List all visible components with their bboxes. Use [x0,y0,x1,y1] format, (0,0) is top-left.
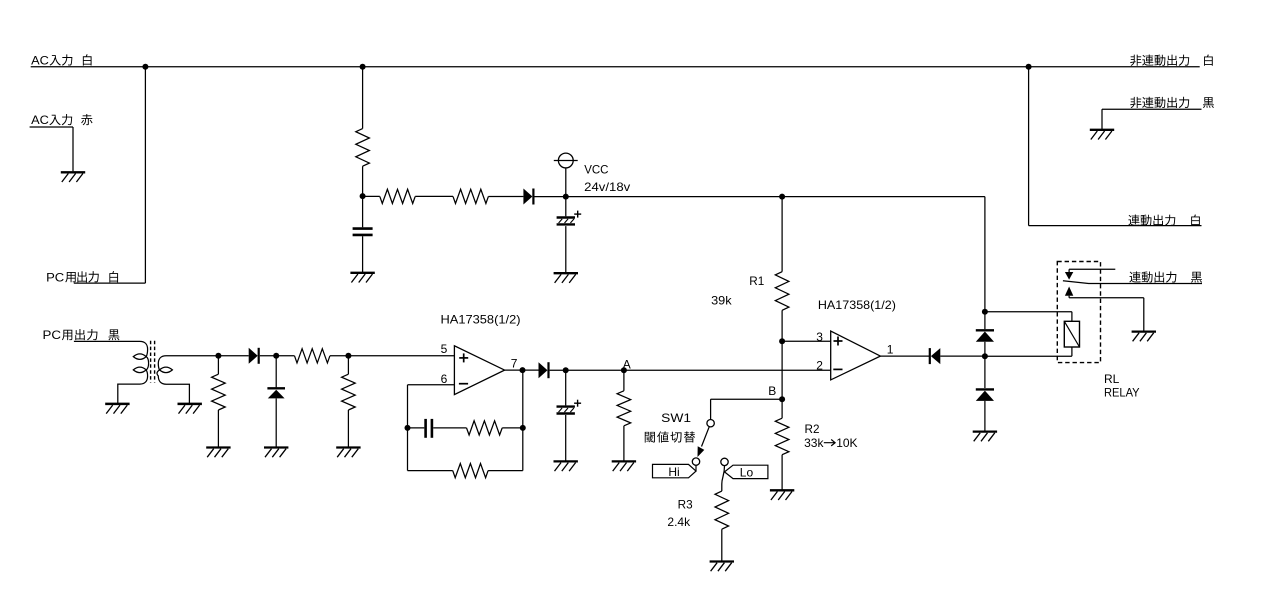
label 33k to 10K [804,436,857,450]
svg-text:24v/18v: 24v/18v [584,180,630,194]
wire feedback right vertical [522,370,524,471]
node junction top rail x362 [360,64,366,70]
node junction pin3 tap [779,338,785,344]
switch SW1 pivot [707,420,714,427]
resistor R1 [775,197,789,400]
svg-text:R1: R1 [749,274,764,288]
ground under C2 [554,273,578,283]
svg-text:B: B [768,384,776,398]
relay contact common blade [1063,281,1202,284]
relay coil RL [1064,321,1079,347]
resistor load secondary [212,356,226,447]
node junction zener [273,353,279,359]
svg-text:39k: 39k [711,293,733,307]
label linked output white [1128,215,1200,226]
ground T1 secondary [178,404,202,414]
resistor R3 [715,466,729,561]
ground AC-red [61,172,85,182]
svg-text:R3: R3 [678,497,693,511]
svg-text:RL: RL [1104,372,1120,386]
label 24v/18v [584,180,630,194]
svg-text:7: 7 [511,357,518,371]
wire linked white vertical [1029,67,1202,226]
resistor feedback upper [467,421,523,435]
resistor feedback lower [408,464,523,478]
svg-text:2.4k: 2.4k [667,515,691,529]
capacitor electrolytic C2 [557,197,582,273]
node junction R1 top [779,194,785,200]
diode zener ZD [267,356,285,447]
wire dropper to cap [362,166,364,227]
label HA17358(1/2) first [441,313,521,327]
node B [768,384,785,402]
label threshold switch [645,431,695,442]
wire AC-white top rail [31,66,1200,68]
flag Hi [653,464,697,479]
wire coil bottom return [985,347,1072,356]
capacitor feedback [408,419,467,438]
svg-text:RELAY: RELAY [1104,386,1140,400]
wire signal segment 1 [218,355,248,357]
pin 3 [816,330,823,344]
pin 1 [887,342,894,356]
node junction coil top [982,309,988,315]
svg-text:2: 2 [816,358,823,372]
ground under A resistor [612,461,636,471]
resistor divider shunt [342,356,356,447]
svg-text:10K: 10K [836,436,857,450]
label R2 [805,422,820,436]
wire coil top feed [985,312,1072,322]
label SW1 [661,411,691,425]
capacitor electrolytic C3 [557,370,582,461]
label R3 [678,497,693,511]
wire signal segment 2 [260,355,295,357]
op-amp U1A [454,346,504,395]
switch SW1 lever [698,427,710,457]
capacitor filter C [353,229,373,235]
label R1 [749,274,764,288]
ground non-linked black [1090,130,1114,140]
resistor series 2 [453,189,488,203]
svg-text:PC: PC [43,328,62,342]
resistor series 1 [380,189,415,203]
pin 7 [511,357,518,371]
node junction linked white [1026,64,1032,70]
node A [621,358,631,374]
wire signal segment 3 [330,355,455,357]
relay contact NO [1065,287,1144,332]
node junction C3 [563,367,569,373]
wire PC-white underline [74,282,146,284]
svg-text:AC: AC [31,113,49,127]
wire to node A [550,369,831,371]
label HA17358(1/2) second [818,298,896,312]
svg-text:33k: 33k [804,436,824,450]
node junction top-left [142,64,148,70]
wire feedback left vertical [407,385,409,471]
node junction divider [345,353,351,359]
transformer T1 secondary [157,356,218,404]
wire op1 inverting input [408,384,455,386]
pin 2 [816,358,823,372]
node junction A1 [215,353,221,359]
wire VCC row segment 4 [535,196,985,198]
svg-text:Lo: Lo [740,465,754,479]
diode output D4 reversed [930,348,985,364]
svg-text:AC: AC [31,54,49,68]
label non-linked output black [1130,97,1214,108]
relay box dashed [1057,262,1100,363]
ground relay NO [1132,332,1156,342]
ground T1 primary [105,404,129,414]
label AC input red [31,113,92,127]
resistor dropper vertical [356,129,370,167]
wire B to switch [711,399,783,419]
svg-text:HA17358(1/2): HA17358(1/2) [441,313,521,327]
svg-text:3: 3 [816,330,823,344]
switch contact Lo [721,458,728,465]
diode signal D2 [249,348,259,364]
diode flyback D5 [976,330,994,388]
label AC input white [31,54,91,68]
label PC output black [43,328,120,342]
svg-text:Hi: Hi [668,465,679,479]
svg-text:VCC: VCC [584,163,609,177]
label PC output white [46,270,118,284]
svg-text:R2: R2 [805,422,820,436]
ground under divider [336,448,360,458]
node junction feedback left [405,425,411,431]
ground under load resistor [206,448,230,458]
wire VCC drop vertical [984,197,986,330]
svg-text:HA17358(1/2): HA17358(1/2) [818,298,896,312]
resistor R2 [775,399,789,490]
node junction feedback right [520,425,526,431]
ground under clamp diodes [973,432,997,442]
ground under filter cap [350,273,374,283]
label 39k [711,293,733,307]
switch contact Hi [692,458,699,465]
node junction op1 out [520,367,526,373]
diode clamp D6 [976,389,994,431]
wire op2 output [880,355,929,357]
wire non-linked black stub [1102,109,1202,129]
svg-text:PC: PC [46,270,64,284]
label RL [1104,372,1120,386]
pin 5 [441,342,448,356]
wire top rail to R dropper [362,67,364,129]
ground under C3 [554,461,578,471]
wire to pin 3 [782,340,831,342]
svg-text:1: 1 [887,342,894,356]
wire op1 output [505,369,539,371]
ground under R3 [710,562,734,572]
label VCC [584,163,609,177]
pin 6 [441,372,448,386]
wire AC-red stub [30,127,73,171]
relay contact NC [1065,269,1115,279]
label linked output black [1129,271,1202,282]
label 2.4k [667,515,691,529]
svg-text:5: 5 [441,342,448,356]
transformer T1 primary [74,341,149,403]
diode supply D1 [523,189,533,205]
wire VCC row segment 1 [363,195,380,197]
diode output D3 [539,362,549,378]
flag Lo [725,465,768,479]
resistor node A shunt [617,370,631,461]
svg-text:SW1: SW1 [661,411,691,425]
transformer T1 core [151,341,155,383]
wire cap to ground [362,236,364,272]
svg-text:6: 6 [441,372,448,386]
node junction VCC row left [360,193,366,199]
wire VCC row segment 3 [488,196,523,198]
power symbol VCC [554,153,578,197]
ground under zener [264,448,288,458]
ground under R2 [770,490,794,500]
wire left vertical to PC-white [144,67,146,283]
node junction coil bottom [982,353,988,359]
resistor signal series [295,349,330,363]
label non-linked output white [1130,55,1213,66]
op-amp U1B [831,331,881,380]
node junction VCC [563,194,569,200]
wire VCC row segment 2 [415,195,453,197]
label RELAY [1104,386,1140,400]
